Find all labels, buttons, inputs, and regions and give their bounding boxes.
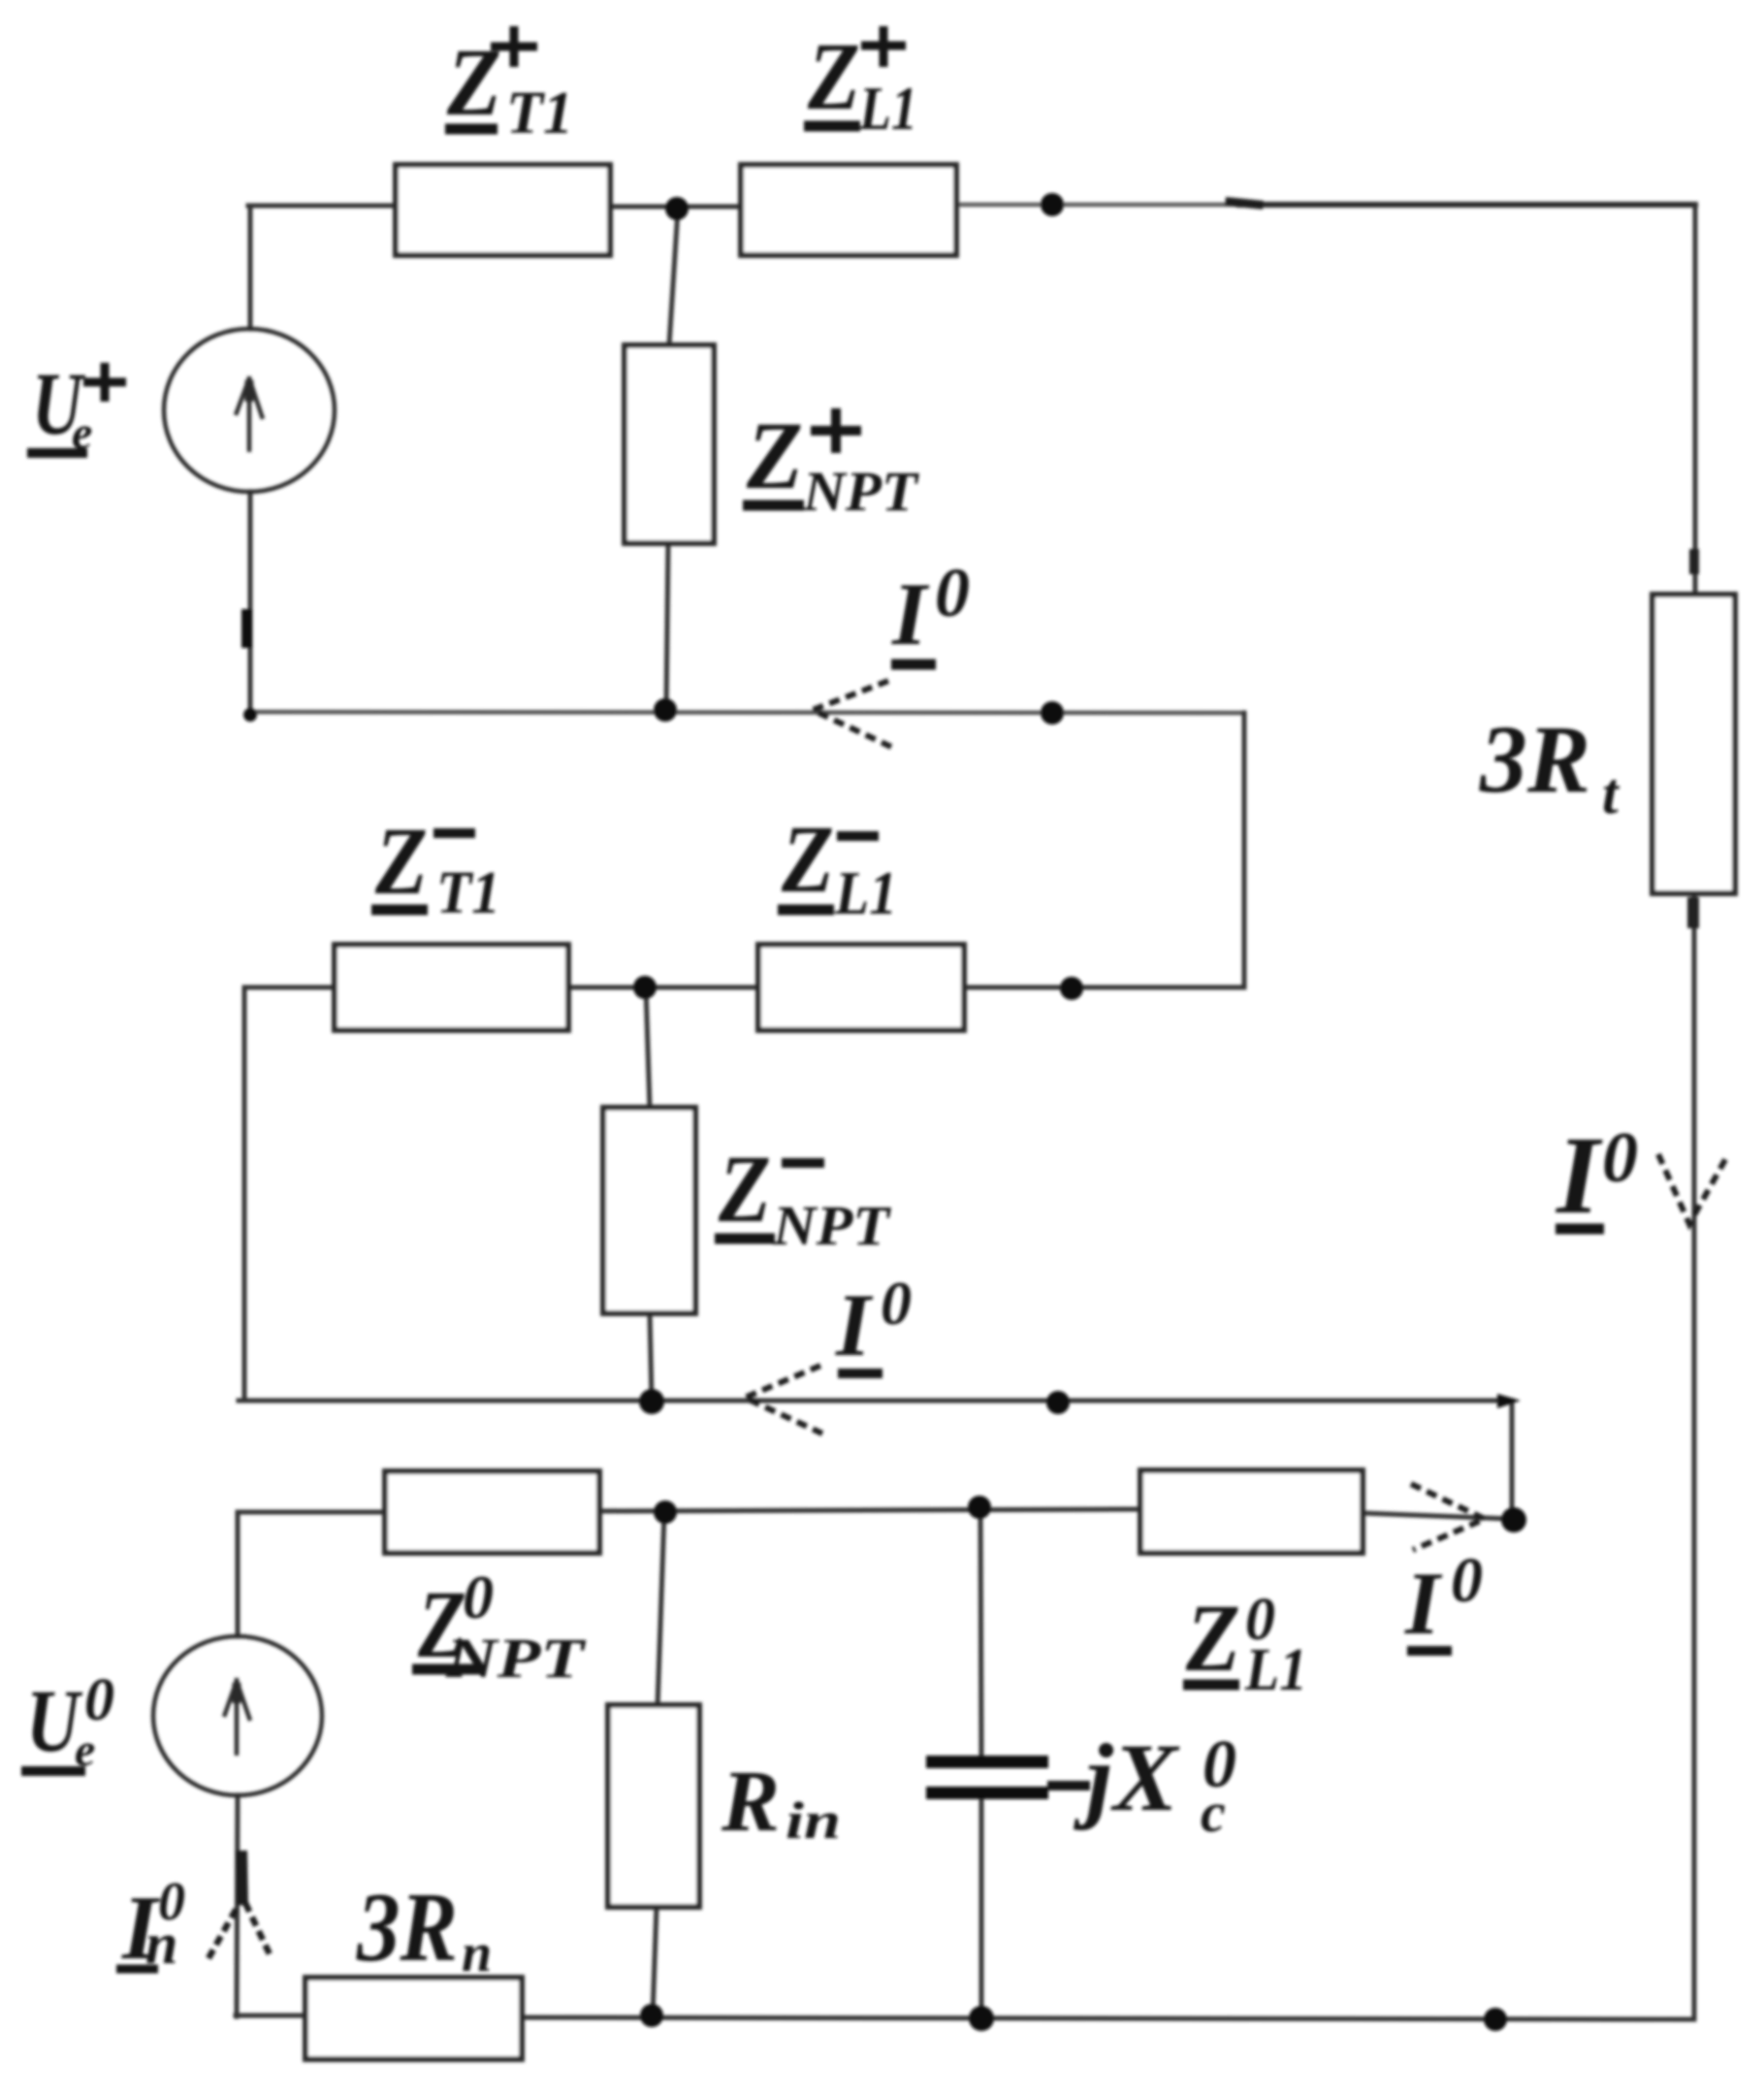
svg-text:in: in [786, 1791, 841, 1850]
svg-text:n: n [462, 1923, 492, 1983]
wire bus1 right corner down [964, 713, 1244, 987]
current arrow In0 up [208, 1851, 272, 1958]
label ZL1- [778, 805, 897, 927]
svg-text:NPT: NPT [802, 460, 920, 523]
wire source bottom to bus1 [248, 492, 253, 713]
svg-text:NPT: NPT [772, 1194, 892, 1257]
label I0 bus1 [891, 554, 970, 664]
wire right vertical upper [1693, 205, 1698, 595]
resistor 3Rn [305, 1978, 522, 2059]
svg-text:T1: T1 [506, 81, 573, 146]
node dot top wire [1041, 193, 1064, 216]
wire Rin top lead [657, 1513, 664, 1707]
current arrow I0 on bus1 [813, 681, 891, 747]
svg-text:R: R [721, 1754, 780, 1850]
wire ZL10 right to node [1363, 1513, 1512, 1519]
svg-text:0: 0 [881, 1269, 912, 1338]
capacitor Xc0 plates [926, 1756, 1048, 1799]
wire ZT1- left and down to bus2 [244, 987, 335, 1401]
resistor ZL1+ [741, 165, 956, 255]
node dot bottom bus Rin [640, 2004, 663, 2027]
node dot zero-seq right [1501, 1507, 1526, 1532]
node dot bus1 right [1041, 701, 1064, 725]
label ZL10 [1183, 1584, 1307, 1703]
resistor ZNPT0 [385, 1471, 599, 1553]
svg-text:Z: Z [746, 402, 803, 509]
wire bus1 [248, 712, 1244, 713]
node dot bus2 ZNPT- [639, 1389, 664, 1414]
node dot bus2 right [1046, 1391, 1070, 1414]
label ZNPT0 [412, 1563, 587, 1690]
node dot ZT1+/ZL1+ junction [665, 197, 689, 220]
resistor ZT1- [335, 945, 568, 1030]
svg-text:t: t [1602, 761, 1620, 825]
wire top-right segment [1239, 202, 1695, 208]
resistor ZT1+ [396, 165, 610, 255]
svg-text:3R: 3R [1479, 705, 1590, 813]
label Rin [721, 1754, 841, 1850]
wire capacitor bottom lead [979, 1799, 984, 2018]
label I0 bus2 [835, 1269, 912, 1374]
wire capacitor top lead [980, 1507, 981, 1757]
svg-text:L1: L1 [858, 74, 917, 143]
wire ZNPT- top lead [646, 987, 650, 1108]
svg-text:Z: Z [807, 22, 860, 130]
wire bus2 [239, 1401, 1512, 1519]
svg-text:jX: jX [1073, 1724, 1180, 1831]
wire left vertical to source top [248, 206, 253, 329]
resistor ZNPT+ [625, 345, 714, 543]
node dot bottom bus capacitor [969, 2006, 994, 2031]
voltage source Ue+ [164, 329, 335, 492]
wire ZNPT0 to ZL10 [599, 1509, 1140, 1511]
current arrow I0 on bus2 [745, 1366, 822, 1434]
svg-text:c: c [1201, 1781, 1226, 1844]
label ZT1+ [445, 26, 573, 146]
wire ZNPT+ bottom lead [666, 543, 668, 711]
node dot bottom bus right [1484, 2008, 1507, 2031]
wire right vertical lower [1692, 893, 1697, 2019]
resistor Rin [608, 1705, 699, 1907]
resistor ZNPT- [603, 1108, 695, 1313]
wire ZNPT+ top lead [669, 210, 678, 345]
artifact blob right wire below 3Rt [1687, 897, 1699, 928]
node dot zero-seq capacitor top [968, 1496, 991, 1519]
artifact blob on left wire [241, 609, 252, 648]
label ZT1- [371, 807, 500, 926]
svg-text:Z: Z [1185, 1584, 1240, 1692]
wire zero-seq top left [238, 1510, 385, 1515]
current arrow I0 zero-seq right [1411, 1484, 1485, 1550]
svg-text:I: I [835, 1275, 874, 1374]
label I0 right [1555, 1113, 1638, 1237]
label ZL1+ [804, 22, 917, 143]
wire ZL1- to ZT1- [568, 985, 758, 990]
node dot bus1 ZNPT+ [654, 698, 677, 722]
wire Rin bottom lead [653, 1907, 657, 2015]
svg-text:Z: Z [781, 805, 834, 913]
svg-text:L1: L1 [834, 858, 897, 927]
label ZNPT+ [743, 402, 920, 523]
node dot zero-seq ZNPT0 right [654, 1500, 677, 1524]
svg-text:I: I [1555, 1113, 1603, 1237]
wire zero-seq left vertical to source [236, 1512, 241, 1636]
wire bottom bus main [522, 2017, 1694, 2019]
wire bottom bus left segment [236, 2014, 305, 2018]
svg-text:I: I [891, 564, 930, 663]
resistor ZL1- [758, 945, 964, 1030]
label Ue0 [21, 1667, 114, 1776]
resistor 3Rt [1652, 595, 1735, 893]
svg-text:3R: 3R [356, 1873, 458, 1983]
svg-text:I: I [1404, 1554, 1443, 1653]
label ZNPT- [715, 1135, 892, 1257]
label -jXc0 [1047, 1724, 1236, 1844]
wire source0 bottom to bottom bus [237, 1795, 238, 2016]
svg-text:0: 0 [1602, 1118, 1638, 1198]
current arrow I0 right side down [1658, 1154, 1727, 1224]
node dot bus1 left end [243, 708, 257, 722]
wire top-left horizontal [248, 204, 396, 209]
label Ue+ [27, 354, 126, 459]
label 3Rt [1479, 705, 1620, 825]
wire between ZT1+ and ZL1+ [610, 205, 741, 210]
artifact blob right wire upper [1689, 549, 1699, 574]
node dot ZT1-/ZL1- junction [633, 976, 657, 999]
svg-text:L1: L1 [1244, 1637, 1307, 1703]
svg-text:Z: Z [718, 1135, 771, 1242]
label In0 [116, 1872, 185, 1979]
wire kink blob [1230, 202, 1259, 205]
wire ZNPT- bottom lead [650, 1313, 652, 1401]
svg-text:0: 0 [84, 1667, 114, 1733]
svg-text:0: 0 [935, 554, 970, 631]
node dot ZL1- right [1060, 977, 1083, 1000]
resistor ZL10 [1140, 1470, 1363, 1553]
voltage source Ue0 [153, 1636, 322, 1795]
svg-text:NPT: NPT [445, 1627, 587, 1690]
svg-text:T1: T1 [436, 860, 500, 926]
svg-text:Z: Z [374, 807, 428, 915]
wire ZL1+ to top-right corner (light segment) [957, 203, 1246, 208]
label 3Rn [356, 1873, 492, 1983]
label I0 zero-seq [1404, 1545, 1483, 1653]
arrowhead bus2 corner [1497, 1394, 1521, 1408]
svg-text:0: 0 [463, 1563, 494, 1631]
svg-text:0: 0 [1451, 1545, 1483, 1616]
